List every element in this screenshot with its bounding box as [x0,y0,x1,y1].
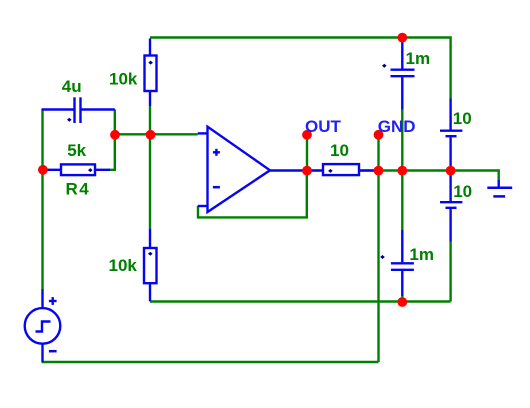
svg-text:OUT: OUT [305,117,342,136]
svg-text:R4: R4 [66,180,91,199]
svg-text:10: 10 [453,109,472,128]
svg-text:10k: 10k [109,256,138,275]
svg-text:1m: 1m [406,49,431,68]
svg-text:1m: 1m [409,245,434,264]
svg-text:GND: GND [378,117,416,136]
svg-text:10: 10 [453,182,472,201]
svg-text:5k: 5k [67,141,86,160]
svg-text:4u: 4u [62,77,82,96]
svg-text:10k: 10k [109,70,138,89]
svg-text:10: 10 [330,141,349,160]
